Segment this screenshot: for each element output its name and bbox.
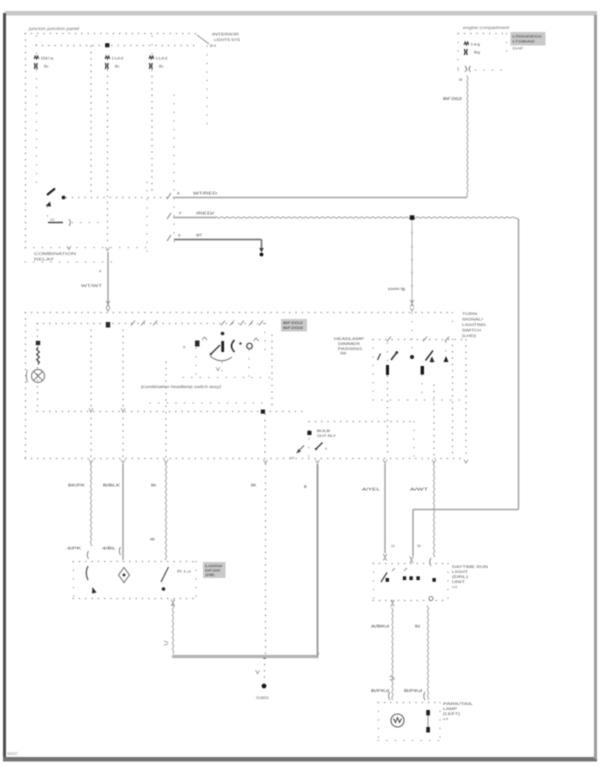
svg-text:BK/PK: BK/PK: [68, 483, 85, 488]
wire C1 label: [362, 487, 381, 492]
lamp bulb symbol: [391, 714, 404, 727]
ground G301 label: [256, 696, 269, 700]
switch S1 contact arm: [47, 189, 55, 196]
svg-text:DAYTIME RUN: DAYTIME RUN: [452, 565, 488, 569]
ground return corner hook: [317, 653, 320, 657]
inner box bottom chevron 2: [121, 408, 125, 411]
interior switch contact: [92, 587, 97, 594]
page frame bottom band: [3, 757, 597, 762]
svg-text:UNIT: UNIT: [452, 580, 466, 584]
fuse F2 (10A): [105, 56, 123, 69]
svg-text:34037: 34037: [7, 751, 19, 756]
svg-text:B/BLK: B/BLK: [103, 483, 120, 488]
relay box top edge: [309, 421, 414, 423]
svg-text:G301: G301: [256, 696, 269, 700]
svg-text:DFG0: DFG0: [205, 569, 220, 573]
svg-text:LtG0d: LtG0d: [205, 564, 222, 568]
box exit chevron x466: [464, 460, 468, 463]
svg-text:B: B: [304, 484, 307, 489]
branch wire vertical: [411, 220, 413, 306]
relay contact square: [307, 431, 311, 435]
svg-text:WT/WT: WT/WT: [81, 283, 103, 288]
svg-text:SW: SW: [340, 352, 347, 356]
junction block box top edge: [25, 33, 197, 35]
combination switch box right edge: [452, 313, 454, 459]
illumination element value text: [51, 218, 55, 222]
DRL terminal squares: [386, 576, 436, 582]
relay box left edge: [308, 422, 310, 457]
ground return right leg: [317, 464, 319, 655]
svg-text:Bc: Bc: [44, 65, 49, 69]
svg-text:4B: 4B: [150, 538, 155, 542]
turnsignal box top edge: [373, 339, 466, 341]
turnsignal column x446: [445, 342, 447, 362]
fuse bus column (dashed): [90, 46, 92, 195]
wire 2 horizontal solid part: [173, 217, 216, 219]
switch S1 pivot dot: [62, 196, 66, 200]
box exit chevron x91: [89, 460, 93, 463]
svg-text:15A l-a.: 15A l-a.: [41, 56, 55, 61]
wire B2 label2: [102, 546, 117, 551]
box exit chevron x123: [121, 460, 125, 463]
svg-text:BF2G2: BF2G2: [283, 321, 303, 325]
svg-text:RELAY: RELAY: [34, 257, 55, 262]
svg-text:WT: WT: [196, 233, 203, 238]
svg-text:COMBINATION: COMBINATION: [34, 251, 76, 256]
junction block inner column (sparse): [173, 95, 175, 247]
wire 3 arrowhead: [259, 248, 264, 253]
wire 3 start connector: [167, 235, 171, 241]
wire 1 terminal label: [177, 192, 180, 196]
svg-text:LRD0IDEG0: LRD0IDEG0: [513, 35, 542, 39]
DRL entry labels: [391, 544, 421, 548]
wire B2 connector: [119, 547, 120, 555]
headlamp switch dark contact T: [195, 341, 200, 347]
lamp terminal lower: [426, 727, 430, 733]
junction block label: [34, 251, 76, 262]
turnsignal switch arm 2: [426, 351, 435, 363]
headlamp switch wiper arc: [210, 356, 232, 361]
ground return bottom run: [172, 655, 319, 658]
svg-text:HEADLAMP: HEADLAMP: [334, 337, 365, 341]
wire D2 label: [415, 624, 420, 629]
wire 2 color label RED: [196, 211, 215, 216]
wire 2 corner path: [514, 218, 519, 220]
wire D1 label: [371, 624, 389, 629]
svg-text:Bc: Bc: [115, 65, 120, 69]
DRL exit connector Y: [391, 600, 395, 607]
svg-text:LAMP: LAMP: [443, 707, 458, 711]
combination switch box top edge: [25, 312, 452, 314]
svg-text:1-Ld-d: 1-Ld-d: [112, 56, 124, 61]
inner box bottom chevron 1: [89, 408, 93, 411]
illumination element connector: [69, 219, 70, 226]
svg-text:B/PKd: B/PKd: [371, 688, 389, 693]
DRL box left edge: [373, 564, 375, 601]
svg-text:a: a: [325, 447, 327, 451]
branch wire entry chevron: [410, 308, 414, 311]
wire D1 (A/BK): [392, 608, 393, 700]
illumination element: [48, 222, 63, 224]
DRL exit ring: [429, 597, 433, 601]
wire B1 label: [68, 483, 85, 488]
wire 1 inline connector: [465, 66, 471, 72]
DRL box right edge: [447, 564, 449, 601]
svg-text:PARK/TAIL: PARK/TAIL: [443, 702, 473, 706]
illumination lamp symbol: [26, 370, 44, 383]
svg-text:(LEFT): (LEFT): [443, 712, 461, 716]
wire 1 corner: [466, 196, 468, 198]
svg-text:juncton junction panel: juncton junction panel: [28, 26, 80, 31]
svg-text:4/PK: 4/PK: [67, 546, 82, 551]
svg-text:INTERIOR: INTERIOR: [212, 33, 239, 37]
inner column x272 (dashed): [271, 335, 273, 410]
headlamp switch inner box left: [37, 324, 39, 412]
fuse F1 (15A): [34, 56, 54, 69]
wire 1 horizontal run: [173, 197, 467, 199]
wire C2 connector: [430, 558, 431, 566]
turnsignal box left edge: [372, 340, 374, 401]
headlamp switch ring terminal: [247, 343, 253, 349]
wire B3 (BK) serrated: [165, 464, 166, 560]
page frame top band: [5, 11, 597, 16]
wire D1 label2 B/PK: [371, 688, 389, 693]
interior switch 2 arm: [161, 567, 169, 582]
interior light box top edge: [73, 561, 196, 563]
headlamp switch pivot dot: [221, 332, 225, 336]
svg-text:(DRL): (DRL): [452, 575, 469, 579]
wire 2 bottom horizontal run: [413, 509, 519, 511]
ground return label: [304, 484, 307, 489]
wire D1 connector: [390, 676, 395, 680]
dimmer contact square: [36, 341, 40, 345]
wire 3 horizontal run: [174, 239, 262, 241]
svg-text:1-Ld-d: 1-Ld-d: [156, 56, 168, 61]
headlamp switch arm: [210, 345, 220, 355]
svg-text:Bd: Bd: [415, 624, 420, 629]
fuse F3 (10A): [149, 56, 167, 69]
wire A terminal text: [99, 269, 102, 273]
dimmer rheostat: [37, 347, 40, 365]
interior box text RL: [177, 570, 191, 574]
engine fusebox right edge: [506, 34, 508, 59]
lamp box bottom edge: [378, 740, 440, 742]
svg-text:BK: BK: [251, 483, 257, 488]
headlamp switch contact row (dashed): [183, 377, 272, 379]
ground wire connector chevron: [256, 670, 260, 673]
svg-text:R.Lo: R.Lo: [177, 570, 191, 574]
ground wire (dotted): [265, 464, 267, 655]
wire A connector Y: [106, 301, 110, 308]
wire B1 (BK/PK) serrated: [90, 464, 91, 546]
switch position hatches: [131, 321, 263, 326]
wire 2 drop to DRL module: [412, 510, 414, 557]
annotation leader to interior lights: [197, 35, 209, 44]
ground junction dot: [263, 655, 267, 659]
wire D1 connector 2: [389, 692, 390, 700]
DRL label block: [452, 565, 488, 589]
svg-text:BULB: BULB: [317, 429, 331, 433]
turnsignal pivot dot: [410, 355, 414, 359]
combination switch right label: [462, 312, 486, 338]
svg-text:PASSING: PASSING: [338, 347, 362, 351]
headlamp switch row chevron: [216, 367, 220, 370]
branch wire connector Y: [410, 300, 414, 307]
wire 2 right vertical run: [518, 219, 520, 509]
junction block title: [28, 26, 80, 31]
engine fusebox bottom edge: [458, 69, 507, 71]
engine fusebox top edge: [458, 33, 507, 35]
headlamp switch caret: [202, 337, 207, 340]
interior switch 2 contact dot: [162, 587, 166, 591]
wire B1 connector: [87, 551, 88, 559]
svg-text:4/BL: 4/BL: [102, 546, 117, 551]
svg-text:B/PKd: B/PKd: [404, 688, 422, 693]
headlamp switch center label: [141, 384, 222, 389]
svg-text:/RED/: /RED/: [196, 211, 215, 216]
branch wire label: [388, 286, 405, 291]
junction block box bottom edge 2: [25, 261, 112, 263]
svg-text:a-d: a-d: [443, 717, 448, 721]
wire B2 label: [103, 483, 120, 488]
headlamp contact columns (dashed): [196, 348, 249, 377]
inner column x265 lower (dashed): [264, 414, 266, 457]
page frame left bar: [3, 13, 6, 761]
svg-text:A/YEL: A/YEL: [362, 487, 381, 492]
svg-text:BF2G0: BF2G0: [283, 326, 303, 330]
wire B3 label2: [150, 538, 155, 542]
inner junction square: [261, 410, 265, 414]
fuse F2 column wire (dashed): [107, 47, 109, 245]
switch S1 column (dashed): [47, 207, 49, 217]
svg-text:a.t: a.t: [51, 218, 55, 222]
grey callout combination switch: [281, 319, 307, 332]
DRL box top edge: [373, 563, 448, 565]
interior box exit connector Y: [171, 600, 175, 607]
svg-text:LIGHTS SYS: LIGHTS SYS: [214, 38, 241, 42]
junction block inner bus (dashed): [36, 45, 196, 47]
svg-text:Bc: Bc: [159, 65, 164, 69]
ground wire label: [251, 483, 257, 488]
ground return left connector: [164, 641, 168, 645]
turnsignal dark wedge: [444, 356, 449, 362]
interior light box left edge: [73, 562, 75, 599]
svg-text:Brg: Brg: [474, 51, 480, 55]
wire 1 terminal M: [459, 78, 462, 82]
grey callout sub text: [513, 47, 524, 51]
inner column x123 (dashed): [122, 330, 124, 457]
wire 2 drop connector Y: [410, 557, 414, 564]
wire D2 (B): [427, 606, 428, 700]
svg-text:1a: 1a: [391, 544, 395, 548]
engine fusebox left edge: [457, 34, 459, 71]
turnsignal column x387: [387, 343, 389, 457]
inner column x166 (dashed): [165, 362, 167, 457]
wire C1 (A/YEL) solid: [384, 464, 386, 553]
combination switch box bottom edge: [25, 458, 466, 460]
svg-text:M: M: [459, 78, 462, 82]
turnsignal dark wedge 2: [430, 357, 435, 363]
svg-text:1-a-g: 1-a-g: [471, 42, 480, 47]
wire 3 drop: [261, 240, 263, 250]
wire 1 color label WT/RED: [193, 191, 217, 196]
combination switch box left edge: [25, 313, 27, 459]
svg-text:A/BKd: A/BKd: [371, 624, 389, 629]
headlamp switch glyph a: [183, 345, 186, 349]
annotation dashed leader: [206, 46, 208, 130]
illumination wire (dashed): [72, 222, 102, 224]
turnsignal contact bar 1: [386, 365, 389, 375]
svg-text:LIGHTING: LIGHTING: [462, 323, 486, 327]
wire D2 label2 B/PK: [404, 688, 422, 693]
wire A color label WT/WT: [81, 283, 103, 288]
headlamp switch inner box bottom: [37, 411, 305, 413]
grey callout interior: [203, 562, 226, 578]
svg-text:DrtF: DrtF: [513, 47, 524, 51]
wire 2 horizontal serrated run: [216, 217, 514, 218]
relay label: [317, 429, 337, 438]
turnsignal box bottom edge: [373, 399, 466, 401]
lamp box label block: [443, 702, 473, 721]
svg-text:WT/RED: WT/RED: [193, 191, 217, 196]
svg-text:BK: BK: [151, 483, 157, 488]
inner column x91 (dashed): [90, 330, 92, 457]
wire 1 circuit label BF262: [443, 96, 463, 101]
wire 3 color label WT: [196, 233, 203, 238]
headlamp switch inner box top: [37, 323, 265, 325]
grey callout fuse block: [511, 32, 546, 46]
box exit chevron x265.5: [264, 460, 268, 463]
ground G301 dot: [262, 684, 267, 689]
junction block exit chevron: [67, 246, 71, 249]
page code text bottom-left: [7, 751, 19, 756]
svg-text:1b: 1b: [417, 544, 421, 548]
wire D2 connector: [424, 692, 425, 700]
svg-text:LTGBIAD: LTGBIAD: [513, 40, 536, 44]
headlamp switch bracket: [232, 340, 235, 352]
junction block box right edge (lower): [146, 182, 148, 258]
box exit chevron x434: [432, 460, 436, 463]
fuse F4 (10A): [464, 42, 480, 55]
svg-text:a-d: a-d: [452, 585, 457, 589]
svg-text:DIMMER: DIMMER: [338, 342, 360, 346]
page frame right bar: [594, 15, 597, 759]
lamp box top edge: [378, 702, 440, 704]
turnsignal box right edge: [465, 340, 467, 459]
wire 2 junction to switch feed: [410, 215, 415, 220]
svg-text:conn lg: conn lg: [388, 286, 405, 291]
wire B1 label2: [67, 546, 82, 551]
turnsignal column x422: [421, 375, 423, 400]
wire 2 start connector: [167, 213, 171, 219]
svg-text:engine compartment: engine compartment: [463, 25, 510, 30]
wire B3 label: [151, 483, 157, 488]
interior switch arc: [86, 566, 88, 580]
svg-text:SWITCH: SWITCH: [462, 329, 481, 333]
wire 3 destination dot: [260, 253, 264, 257]
headlamp switch sub row (dashed): [150, 402, 265, 404]
interior light box bottom edge: [73, 598, 196, 600]
lamp terminal link: [427, 715, 429, 727]
svg-text:(combination headlamp switch a: (combination headlamp switch assy): [141, 384, 222, 389]
junction block box bottom edge: [25, 247, 150, 249]
svg-text:A/WT: A/WT: [410, 487, 429, 492]
turnsignal label block: [334, 337, 365, 356]
DRL small marks: [392, 568, 407, 571]
exit arrow to left: [290, 446, 304, 461]
DRL box bottom edge: [373, 600, 448, 602]
interior light box right edge: [195, 562, 197, 599]
wire A exit chevron: [106, 247, 110, 250]
ground return left leg (serrated): [172, 604, 173, 654]
svg-text:TURN: TURN: [462, 312, 477, 316]
relay switch arm: [315, 443, 327, 451]
ground wire lower (dotted): [264, 658, 266, 681]
wire C2 (A/WT) serrated: [433, 464, 434, 557]
turnsignal contact bar 2: [421, 366, 424, 375]
wire 1 vertical run (serrated): [467, 76, 468, 196]
turnsignal column x434: [433, 385, 435, 457]
svg-text:B+t: B+t: [210, 44, 217, 48]
lamp box left edge: [378, 703, 380, 741]
turnsignal switch glyph b: [378, 354, 381, 361]
annotation text interior lights: [210, 33, 241, 49]
svg-text:LIGHT: LIGHT: [452, 570, 469, 574]
fuse F1 column wire (dashed): [36, 36, 38, 188]
interior LED diamond: [119, 568, 130, 583]
turnsignal switch arm 1: [391, 351, 398, 360]
box exit chevron x166: [164, 460, 168, 463]
wire 2 terminal label: [179, 212, 182, 216]
wire A contact square: [106, 322, 110, 328]
wire A (WT/WT) vertical: [107, 252, 109, 305]
lamp box right edge: [439, 703, 441, 741]
headlamp switch dark bar i: [221, 341, 224, 352]
box exit chevron x317.5: [316, 460, 320, 463]
wire B2 (B/BLK) solid: [122, 464, 124, 560]
wire C2 label: [410, 487, 429, 492]
svg-text:(LHD): (LHD): [462, 334, 477, 338]
wire from S1 to tail feed (dashed): [66, 197, 168, 199]
lamp terminal upper: [426, 710, 430, 716]
svg-text:2fE: 2fE: [205, 573, 215, 577]
box exit chevron x385: [383, 460, 387, 463]
junction block box left edge: [25, 34, 27, 249]
relay box right edge: [413, 422, 415, 457]
headlamp switch dot2: [239, 342, 242, 345]
svg-text:SIGNAL/: SIGNAL/: [462, 318, 484, 322]
wire A entry chevron: [106, 308, 110, 311]
turnsignal box hatches: [387, 337, 449, 342]
svg-text:OUT RLY: OUT RLY: [317, 434, 337, 438]
svg-text:14: 14: [290, 456, 294, 460]
headlamp switch inner box right: [264, 324, 266, 351]
svg-text:BF262: BF262: [443, 96, 463, 101]
wire 1 start connector: [167, 193, 171, 199]
wire 3 terminal label: [178, 234, 181, 238]
switch S1 lower contact: [46, 202, 52, 207]
wire C1 connector Y: [383, 554, 387, 561]
headlamp switch caret2: [254, 338, 259, 341]
fuse F3 column wire (dashed): [151, 36, 153, 196]
junction block bus junction: [105, 43, 109, 47]
engine fusebox title: [463, 25, 510, 30]
DRL switch arm: [381, 573, 387, 583]
turnsignal column x412 (dashed): [411, 313, 413, 352]
